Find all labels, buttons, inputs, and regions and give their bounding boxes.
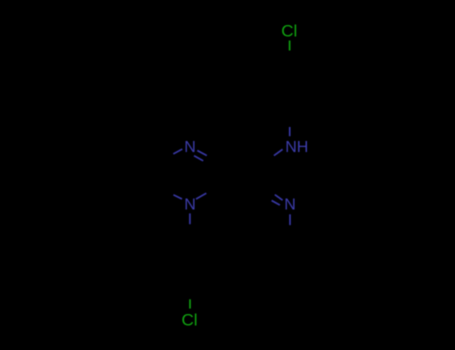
svg-text:N: N (184, 197, 196, 214)
svg-text:Cl: Cl (281, 22, 297, 41)
double bond C=N outer half (275, 195, 283, 201)
svg-text:Cl: Cl (182, 310, 198, 329)
bond N-CH3 half-bond (down) (289, 214, 291, 225)
double bond N1=C2 outer half (197, 151, 207, 156)
bond Cl-C(aryl) half-bond (green) (289, 41, 291, 51)
bond Cl-C(aryl) half-bond (green, above Cl) (189, 299, 191, 308)
svg-text:NH: NH (285, 139, 308, 156)
bond N4-C(aryl) half-bond (down) (189, 213, 191, 224)
double bond C=N inner half (272, 201, 280, 206)
bond C(aryl)-N(H) half-bond (blue, above NH) (289, 127, 291, 136)
bond N4-C3 half-bond (196, 193, 206, 199)
svg-text:N: N (184, 139, 196, 156)
bond N1-C6 half-bond (173, 149, 182, 154)
bond NH-C half-bond (blue diagonal) (274, 149, 283, 155)
svg-text:N: N (284, 197, 296, 214)
bond N4-C5 half-bond (173, 195, 182, 199)
double bond N1=C2 inner half (194, 156, 203, 161)
